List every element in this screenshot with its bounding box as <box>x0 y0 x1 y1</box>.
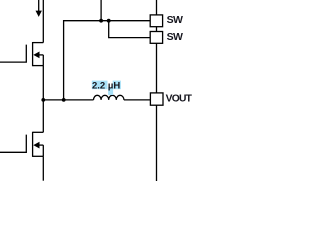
wire Q1 drain to top <box>42 0 44 43</box>
wire SW pin 1 to switch node <box>64 21 151 100</box>
transistor Q1 body arrow <box>33 52 39 59</box>
node junction dot SW left <box>41 98 45 102</box>
pin box SW1 <box>150 15 162 27</box>
svg-text:2.2 µH: 2.2 µH <box>92 81 120 92</box>
wire branch to SW pin 2 <box>109 21 151 38</box>
wire switch node to inductor <box>43 99 93 101</box>
wire input branch to node <box>100 0 102 21</box>
wire Q1 source to Q2 drain <box>42 66 44 133</box>
transistor Q1 <box>0 42 43 66</box>
IC body left edge <box>156 0 158 181</box>
current arrow head <box>36 11 42 17</box>
node junction dot SW right <box>62 98 66 102</box>
pin box SW2 <box>150 32 162 44</box>
inductor L1 <box>94 95 124 100</box>
svg-text:VOUT: VOUT <box>166 94 193 105</box>
node junction dot B <box>107 19 111 23</box>
current arrow <box>38 0 40 11</box>
svg-text:SW: SW <box>167 14 183 26</box>
inductor L1 value highlight <box>92 81 121 95</box>
transistor Q2 <box>0 132 43 157</box>
svg-text:SW: SW <box>167 31 183 43</box>
node junction dot A <box>99 19 103 23</box>
pin box VOUT <box>150 93 163 105</box>
wire inductor to VOUT pin <box>124 99 150 101</box>
wire Q2 source down <box>42 156 44 180</box>
transistor Q2 body arrow <box>33 142 39 149</box>
